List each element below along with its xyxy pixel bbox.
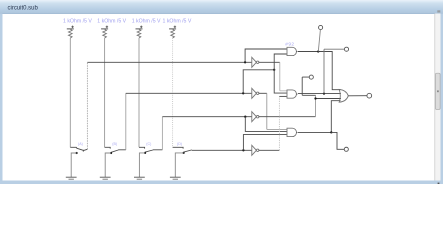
wire AND3 output to terminal T5 bbox=[331, 132, 344, 149]
wire U2 output to AND3 input 1 bbox=[259, 93, 287, 129]
svg-text:(A): (A) bbox=[78, 142, 83, 146]
switch S2 (down position) bbox=[105, 142, 126, 152]
node U3 output junction bbox=[314, 97, 316, 99]
wire S1 sense vertical bbox=[86, 62, 88, 149]
node S2 branch junction bbox=[273, 69, 275, 71]
wire S3 sense vertical bbox=[161, 117, 163, 150]
svg-text:1 kOhm /5 V: 1 kOhm /5 V bbox=[63, 18, 92, 24]
wire S3 to ground bbox=[139, 153, 145, 177]
wire AND2 output to OR input 2 bbox=[298, 93, 340, 95]
terminal T5 output pin bbox=[344, 147, 348, 151]
wire U4 output to AND2 input 3 bbox=[259, 96, 287, 150]
scrollbar bbox=[435, 10, 441, 184]
wire S2 branch up bbox=[243, 70, 274, 94]
wire S4 to ground bbox=[175, 153, 183, 177]
resistor R4 bbox=[163, 18, 192, 38]
inverter U2 bbox=[252, 88, 259, 98]
svg-text:1 kOhm /5 V: 1 kOhm /5 V bbox=[163, 18, 192, 24]
switch S1 (up position) bbox=[70, 142, 87, 151]
svg-text:1 kOhm /5 V: 1 kOhm /5 V bbox=[97, 18, 126, 24]
switch S2 bottom terminal dot bbox=[110, 152, 112, 154]
node S3-U3 junction bbox=[244, 116, 246, 118]
terminal T1 output pin bbox=[318, 25, 322, 51]
resistor R1 bbox=[63, 18, 92, 38]
terminal T4 output pin bbox=[367, 93, 372, 98]
wire S2 sense vertical bbox=[125, 93, 127, 150]
wire S1 to ground bbox=[71, 153, 76, 177]
resistor R2 bbox=[97, 18, 126, 38]
ground 1 bbox=[66, 177, 77, 181]
node AND2 output junction bbox=[323, 92, 325, 94]
wire col3 vertical bbox=[138, 38, 140, 147]
svg-text:(D): (D) bbox=[177, 142, 182, 146]
switch S4 bottom terminal dot bbox=[183, 152, 185, 154]
terminal T2 output pin bbox=[302, 75, 315, 95]
switch S3 bottom terminal dot bbox=[144, 152, 146, 154]
wire S2 branch to AND2 input 2 bbox=[274, 70, 287, 93]
wire S2 net horizontal to inverter U2 bbox=[126, 92, 252, 94]
wire col4 vertical (faint) bbox=[172, 38, 174, 147]
node AND1 output junction bbox=[317, 50, 319, 52]
OR gate O1 bbox=[339, 89, 348, 102]
wire col2 vertical bbox=[104, 38, 106, 147]
wire U3 output to OR input 3 bbox=[259, 95, 340, 116]
window borders bbox=[0, 14, 443, 185]
node S2-U2 junction bbox=[242, 92, 244, 94]
wire S1 branch to AND1 input 1 bbox=[245, 49, 287, 62]
inverter U3 bbox=[252, 112, 259, 122]
switch S3 (down position) bbox=[139, 142, 162, 152]
ground 3 bbox=[134, 177, 145, 181]
wire S4 net horizontal to inverter U4 bbox=[192, 149, 252, 151]
wire S4 branch to AND3 input 3 bbox=[243, 135, 287, 151]
inverter U1 bbox=[252, 57, 259, 67]
switch S1 bottom terminal dot bbox=[76, 152, 78, 154]
AND gate A2 bbox=[287, 90, 298, 98]
AND gate A3 bbox=[287, 128, 298, 136]
canvas background bbox=[0, 0, 443, 184]
wire S1 net horizontal to inverter U1 bbox=[87, 61, 251, 63]
wire S2 to ground bbox=[105, 153, 111, 177]
node S1-U1 junction bbox=[244, 61, 246, 63]
wire S3 net horizontal to inverter U3 bbox=[162, 116, 251, 118]
svg-text:#92: #92 bbox=[285, 41, 294, 47]
ground 2 bbox=[100, 177, 111, 181]
switch S4 (down position) bbox=[173, 142, 192, 152]
AND gate A1 bbox=[285, 41, 298, 55]
wire AND3 output to OR input 4 bbox=[298, 101, 340, 133]
svg-text:circuit0.sub: circuit0.sub bbox=[8, 6, 39, 12]
svg-text:(C): (C) bbox=[146, 142, 151, 146]
node S4-U4 junction bbox=[242, 149, 244, 151]
wire AND1 output to OR input 1 bbox=[298, 52, 340, 90]
wire OR output to terminal T4 bbox=[348, 95, 367, 97]
svg-text:(B): (B) bbox=[112, 142, 117, 146]
wire S3 branch to AND3 input 2 bbox=[245, 117, 287, 132]
window title bar bbox=[0, 0, 443, 14]
svg-text:1 kOhm /5 V: 1 kOhm /5 V bbox=[132, 18, 161, 24]
resistor R3 bbox=[132, 18, 161, 38]
wire col1 vertical bbox=[69, 38, 71, 147]
inverter U4 bbox=[252, 145, 259, 155]
terminal T3 output pin bbox=[324, 47, 349, 93]
ground 4 bbox=[170, 177, 181, 181]
node AND3 output junction bbox=[330, 131, 332, 133]
wire S2 branch to AND1 input 2 bbox=[274, 54, 287, 70]
wire U1 output to AND2 input 1 bbox=[259, 62, 287, 91]
